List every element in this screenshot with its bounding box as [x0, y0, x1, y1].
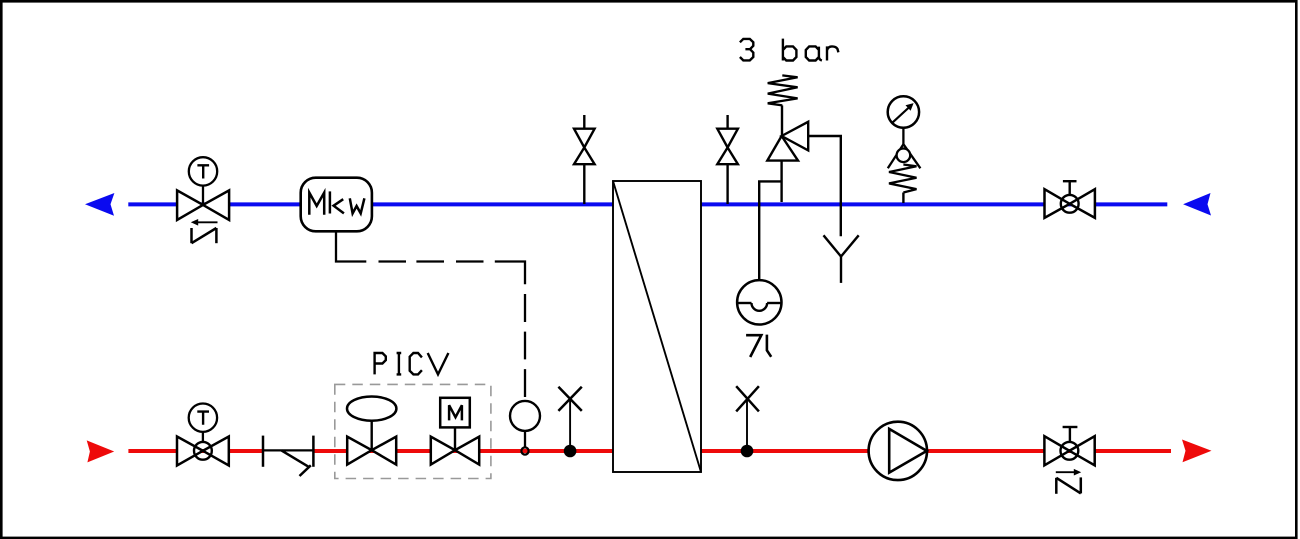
- temperature sensor well on red pipe: [510, 401, 540, 455]
- expansion vessel connection line: [759, 181, 781, 280]
- PICV dashed enclosure: [335, 384, 491, 478]
- safety valve discharge line: [808, 136, 841, 236]
- drain valve closed right of heat exchanger: [736, 386, 759, 447]
- safety valve SV: [767, 122, 808, 202]
- blue flow arrow right end: [1183, 193, 1211, 216]
- thermometer T2: [189, 404, 217, 432]
- discharge funnel: [824, 235, 859, 283]
- label 3 bar: [740, 39, 839, 61]
- junction node on red pipe left: [564, 445, 577, 458]
- heat exchanger: [613, 181, 701, 472]
- junction node on red pipe right: [741, 445, 754, 458]
- drain symbol of V1: [192, 228, 217, 243]
- thermometer T1: [189, 157, 217, 185]
- expansion vessel 7l: [737, 280, 781, 324]
- PICV motor control valve: [431, 398, 479, 465]
- red flow arrow left end: [87, 440, 115, 462]
- label PICV: [375, 353, 449, 374]
- vent valve on blue pipe left of heat exchanger: [574, 115, 595, 204]
- check valve on red pipe: [263, 436, 313, 476]
- blue flow arrow left end: [85, 193, 114, 216]
- flow direction arrow of red ball valve: [1056, 469, 1081, 476]
- circulation pump: [869, 422, 927, 480]
- shut-off valve V2 on red pipe with thermometer: [177, 432, 229, 465]
- safety valve spring: [768, 75, 798, 136]
- shut-off valve V1 on blue pipe with thermometer: [177, 186, 229, 220]
- label 7l: [746, 335, 771, 357]
- blue return pipe: [128, 202, 1167, 206]
- flow direction arrow of V1: [191, 219, 218, 226]
- PICV balancing valve: [347, 397, 396, 465]
- pressure gauge: [888, 96, 919, 144]
- vent valve on blue pipe right of heat exchanger: [717, 115, 738, 204]
- drain symbol of red ball valve: [1056, 477, 1081, 493]
- red flow arrow right end: [1182, 440, 1212, 463]
- red supply pipe: [128, 449, 1171, 453]
- gauge siphon spring: [889, 165, 917, 204]
- heat meter sensor control line: [336, 231, 525, 397]
- heat meter Mkw: [301, 178, 372, 232]
- ball valve on red pipe: [1044, 427, 1094, 465]
- gauge cock: [888, 144, 921, 168]
- ball valve on blue pipe: [1045, 181, 1095, 218]
- drain valve closed left of heat exchanger: [558, 387, 581, 447]
